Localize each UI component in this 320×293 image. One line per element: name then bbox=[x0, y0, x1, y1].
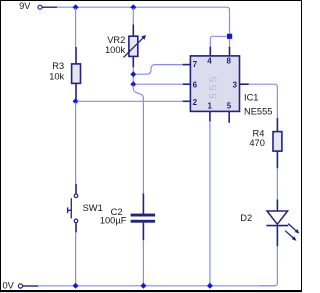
node A VR2/pin7 junction bbox=[130, 71, 136, 77]
wire SW1 to 0V rail bbox=[75, 232, 77, 286]
svg-text:10k: 10k bbox=[49, 72, 64, 82]
svg-text:D2: D2 bbox=[240, 213, 252, 223]
svg-text:0V: 0V bbox=[3, 281, 15, 291]
svg-text:NE555: NE555 bbox=[244, 106, 272, 116]
svg-text:IC1: IC1 bbox=[244, 92, 258, 102]
wire R3 junction to SW1 bbox=[75, 102, 77, 184]
svg-text:1: 1 bbox=[207, 102, 212, 111]
node C2/0V junction bbox=[140, 283, 146, 289]
svg-text:100µF: 100µF bbox=[100, 216, 127, 226]
node 9V/VR2 junction bbox=[130, 4, 136, 10]
wire 9V rail bbox=[57, 7, 230, 33]
svg-text:5: 5 bbox=[227, 102, 232, 111]
wire 0V rail bbox=[38, 285, 275, 287]
svg-text:3: 3 bbox=[232, 81, 237, 90]
led D2 bbox=[266, 200, 299, 247]
resistor R4 bbox=[273, 118, 282, 169]
wire node A to pin 7 bbox=[136, 65, 184, 75]
svg-text:7: 7 bbox=[193, 60, 198, 69]
wire square junction to pin 4 bbox=[210, 36, 227, 47]
wire pin 3 to R4 bbox=[249, 84, 278, 118]
wire 9V rail to R3 bbox=[75, 8, 77, 48]
capacitor C2 bbox=[131, 194, 156, 241]
wire node B to C2 bbox=[133, 85, 143, 194]
node pin1/0V junction bbox=[207, 283, 213, 289]
terminal 9V bbox=[38, 5, 57, 9]
svg-text:100k: 100k bbox=[105, 45, 126, 55]
node R3/SW1/pin2 junction bbox=[73, 98, 79, 104]
wire 9V rail to VR2 bbox=[132, 8, 134, 25]
svg-text:555: 555 bbox=[208, 74, 220, 99]
wire R3 junction to pin 2 bbox=[78, 100, 184, 102]
ic IC1 NE555 bbox=[183, 47, 249, 123]
wire pin 1 to 0V rail bbox=[209, 121, 211, 286]
wire R4 to D2 bbox=[276, 168, 278, 200]
svg-text:4: 4 bbox=[207, 56, 212, 65]
svg-text:9V: 9V bbox=[19, 1, 31, 11]
svg-text:8: 8 bbox=[226, 56, 231, 65]
switch SW1 bbox=[68, 184, 78, 233]
wire C2 to 0V rail bbox=[142, 240, 144, 286]
node 9V/R3 junction bbox=[73, 4, 79, 10]
node B VR2/pin6 junction bbox=[130, 81, 136, 87]
wire D2 to 0V rail bbox=[260, 246, 277, 286]
potentiometer VR2 bbox=[124, 25, 147, 68]
svg-text:VR2: VR2 bbox=[107, 35, 125, 45]
resistor R3 bbox=[72, 47, 81, 101]
terminal 0V bbox=[18, 284, 38, 288]
svg-text:R3: R3 bbox=[52, 61, 64, 71]
svg-text:6: 6 bbox=[193, 81, 198, 90]
svg-text:SW1: SW1 bbox=[83, 203, 103, 213]
node SW1/0V junction bbox=[73, 283, 79, 289]
wire node B to pin 6 bbox=[136, 83, 184, 85]
svg-text:2: 2 bbox=[193, 98, 198, 107]
wire square junction to pin 8 bbox=[229, 39, 231, 47]
wire VR2 to node A bbox=[132, 67, 134, 84]
node square junction pin4/pin8/9V bbox=[227, 34, 232, 39]
svg-text:470: 470 bbox=[249, 138, 265, 148]
